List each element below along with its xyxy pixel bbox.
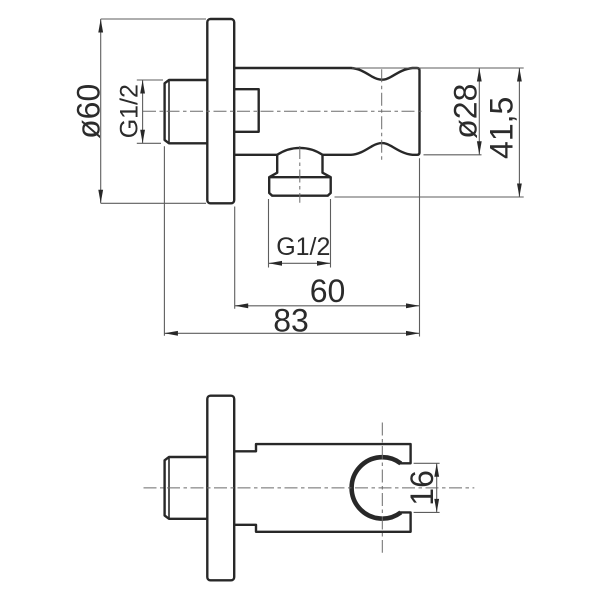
threaded inlet nipple G1/2 (bottom view) [165, 457, 208, 519]
svg-text:41,5: 41,5 [484, 97, 520, 159]
dimension 41,5 extension line [335, 196, 524, 198]
svg-text:83: 83 [273, 302, 309, 338]
dimension G1/2 outlet extension lines [269, 199, 331, 268]
dimension Ø28 extension lines [352, 68, 524, 155]
vertical centerline of holder ring (bottom view) [381, 423, 383, 553]
dimension G1/2 inlet extension lines [137, 80, 163, 143]
dimension Ø60 line with arrows [100, 19, 102, 203]
dimension 83 extension line [163, 146, 165, 335]
dimension 60 line with arrows [235, 305, 420, 307]
dimension G1/2 inlet line with arrows [142, 80, 144, 143]
C-ring shower holder (bottom view) [352, 457, 401, 518]
dimension 16 extension lines [414, 463, 440, 512]
body barrel Ø28 with holder waist (top view) [234, 68, 419, 155]
svg-text:ø60: ø60 [71, 84, 107, 139]
threaded inlet nipple G1/2 (top view) [165, 80, 208, 143]
dimension Ø60 extension lines [101, 19, 206, 203]
outlet thread nut G1/2 (top view) [269, 155, 331, 196]
dimension 83 line with arrows [164, 332, 419, 334]
svg-text:16: 16 [404, 470, 440, 506]
dimension 16 line with arrows [436, 463, 438, 512]
svg-text:G1/2: G1/2 [116, 84, 144, 138]
svg-text:60: 60 [310, 273, 346, 309]
svg-text:ø28: ø28 [447, 84, 483, 139]
svg-text:G1/2: G1/2 [276, 233, 330, 261]
wall flange Ø60 (bottom view) [207, 396, 234, 581]
dimension G1/2 outlet line with arrows [269, 262, 331, 264]
outlet spout dome (top view) [277, 148, 322, 155]
horizontal centerline (top view) [143, 110, 425, 112]
body with holder bracket (bottom view) [234, 444, 410, 532]
horizontal centerline (bottom view) [144, 487, 475, 489]
wall flange Ø60 (top view) [207, 19, 234, 203]
dimension Ø28 line with arrows [478, 68, 480, 155]
dimension 60 extension lines [235, 158, 420, 336]
neck groove between flange and body (top view) [234, 89, 259, 132]
outlet axis centerline (top view) [299, 146, 301, 203]
vertical holder axis centerline (top view) [381, 69, 383, 161]
dimension 41,5 line with arrows [518, 68, 520, 197]
